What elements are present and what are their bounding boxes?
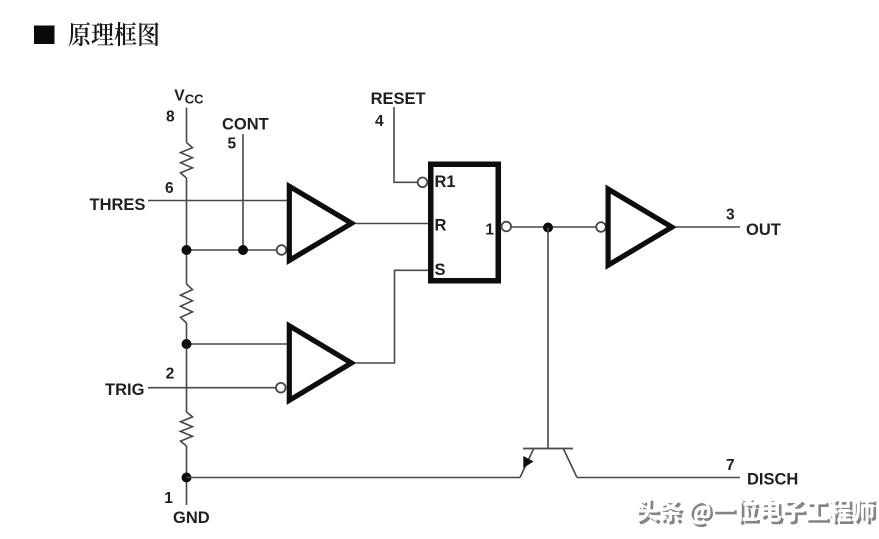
wire node D to comp2 plus input [187,343,293,345]
svg-text:1: 1 [485,222,494,239]
wire rail bottom to GND [186,446,188,505]
comparator U1 inverting input bubble [277,245,287,255]
resistor R-middle [181,284,193,323]
comparator U2 (trigger) [289,326,351,401]
wire CONT pin 5 [242,134,244,250]
wire comp2 out to S [356,270,428,363]
svg-text:1: 1 [164,490,173,507]
node junction dot A [182,245,192,255]
wire flip-flop out to buffer [512,226,596,228]
svg-text:RESET: RESET [371,90,426,108]
watermark text 头条 @一位电子工程师 [636,498,874,525]
svg-text:R1: R1 [435,173,456,191]
node junction dot B [238,245,248,255]
wire THRES to comparator U1 plus input [148,200,292,202]
svg-text:CC: CC [185,91,204,106]
wire divider node to comp1 minus [187,249,278,251]
flip-flop output bubble [502,222,512,232]
comparator U1 (threshold) [289,186,351,260]
transistor Q1 collector [564,449,578,478]
wire rail lower-mid [186,323,188,412]
wire RESET pin 4 [394,107,417,182]
wire GND rail to transistor emitter [187,477,521,479]
svg-text:CONT: CONT [222,115,269,133]
svg-text:6: 6 [165,180,174,197]
svg-text:THRES: THRES [90,196,146,214]
flip-flop R1 input bubble [418,178,428,188]
flip-flop U3 box [431,164,499,281]
title text 原理框图 [69,22,159,46]
svg-text:2: 2 [166,366,175,383]
comparator U2 inverting input bubble [276,383,286,393]
resistor R-lower [181,412,193,446]
transistor Q1 emitter arrow [523,456,533,468]
svg-text:TRIG: TRIG [105,381,144,399]
svg-text:R: R [435,217,447,235]
svg-text:OUT: OUT [746,221,781,239]
svg-text:V: V [174,88,185,105]
svg-text:DISCH: DISCH [747,471,798,489]
node junction dot D [182,339,192,349]
wire buffer out to OUT [676,226,740,228]
buffer U4 input bubble [596,222,606,232]
wire node C down to transistor base [547,228,549,449]
output buffer U4 [608,189,672,265]
resistor R-upper [181,143,193,179]
svg-text:5: 5 [228,136,237,153]
wire TRIG to comp2 minus [148,387,276,389]
watermark shadow 头条 @一位电子工程师 [639,500,877,527]
node junction dot E [182,473,192,483]
title bullet square [34,26,55,45]
transistor Q1 emitter [520,449,534,478]
wire Vcc rail top [186,108,188,143]
svg-text:7: 7 [726,457,735,474]
Vcc label [174,88,204,107]
svg-text:4: 4 [375,113,384,130]
wire comp1 out to R [356,223,428,225]
transistor Q1 base bar [523,448,573,450]
svg-text:3: 3 [726,207,735,224]
svg-text:8: 8 [166,108,175,125]
node junction dot C [543,223,553,233]
svg-text:GND: GND [173,509,210,527]
wire rail upper-mid [186,178,188,284]
wire collector to DISCH pin 7 [577,477,740,479]
svg-text:S: S [435,261,446,279]
